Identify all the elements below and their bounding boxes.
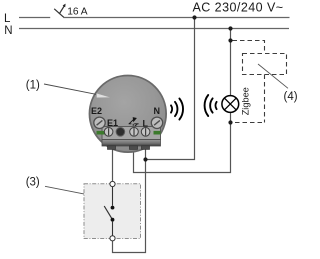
svg-text:N: N xyxy=(154,106,161,116)
svg-text:16 A: 16 A xyxy=(67,7,88,18)
svg-text:(1): (1) xyxy=(26,80,40,92)
svg-text:L: L xyxy=(4,13,11,25)
svg-text:(4): (4) xyxy=(284,91,298,103)
svg-text:E1: E1 xyxy=(107,118,118,128)
svg-text:N: N xyxy=(4,25,12,37)
svg-text:E2: E2 xyxy=(91,106,102,116)
svg-text:AC 230/240 V~: AC 230/240 V~ xyxy=(193,1,284,15)
svg-text:(3): (3) xyxy=(26,176,40,188)
svg-text:L: L xyxy=(143,119,149,129)
svg-text:Zigbee: Zigbee xyxy=(240,87,250,115)
